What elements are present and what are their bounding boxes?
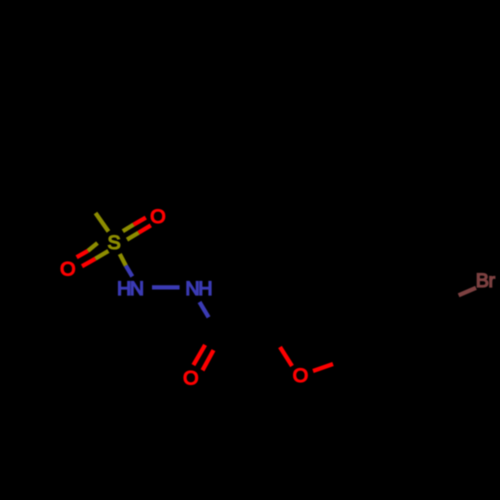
svg-text:O: O — [60, 258, 75, 280]
svg-text:S: S — [107, 232, 120, 254]
bond C=O4 (carbonyl) line A oxygen half — [193, 345, 205, 365]
bond S1=O3 (lower-left) line B oxygen half — [82, 259, 95, 267]
svg-text:HN: HN — [117, 278, 143, 300]
svg-text:Br: Br — [476, 270, 496, 292]
svg-text:O: O — [150, 206, 165, 228]
bond S1-C(methyl) visible sulfur half — [96, 213, 109, 232]
svg-text:O: O — [293, 365, 308, 387]
bond S1=O3 (lower-left) line A sulfur half — [88, 243, 98, 251]
bond N1-N2 — [152, 285, 180, 289]
bond S1=O2 (upper-right) line B oxygen half — [139, 225, 151, 232]
svg-text:NH: NH — [185, 278, 211, 300]
bond S1-N1 sulfur half — [120, 254, 126, 266]
bond S1=O3 (lower-left) line A oxygen half — [77, 251, 88, 257]
bond C=O4 (carbonyl) line B oxygen half — [203, 350, 214, 370]
bond S1-N1 nitrogen half — [126, 266, 133, 277]
bond O5-C7a (furan, right) oxygen half — [313, 364, 333, 371]
bond S1=O2 (upper-right) line B sulfur half — [127, 233, 139, 240]
bond S1=O3 (lower-left) line B sulfur half — [95, 251, 108, 259]
bond N2-C(carbonyl) visible nitrogen half — [200, 302, 209, 317]
bond C5-Br visible bromine half — [459, 288, 476, 296]
svg-text:O: O — [183, 368, 198, 390]
bond S1=O2 (upper-right) line A sulfur half — [123, 225, 134, 232]
bond O5-C2 (furan, up-left) oxygen half — [280, 347, 292, 366]
bond S1=O2 (upper-right) line A oxygen half — [134, 218, 146, 225]
